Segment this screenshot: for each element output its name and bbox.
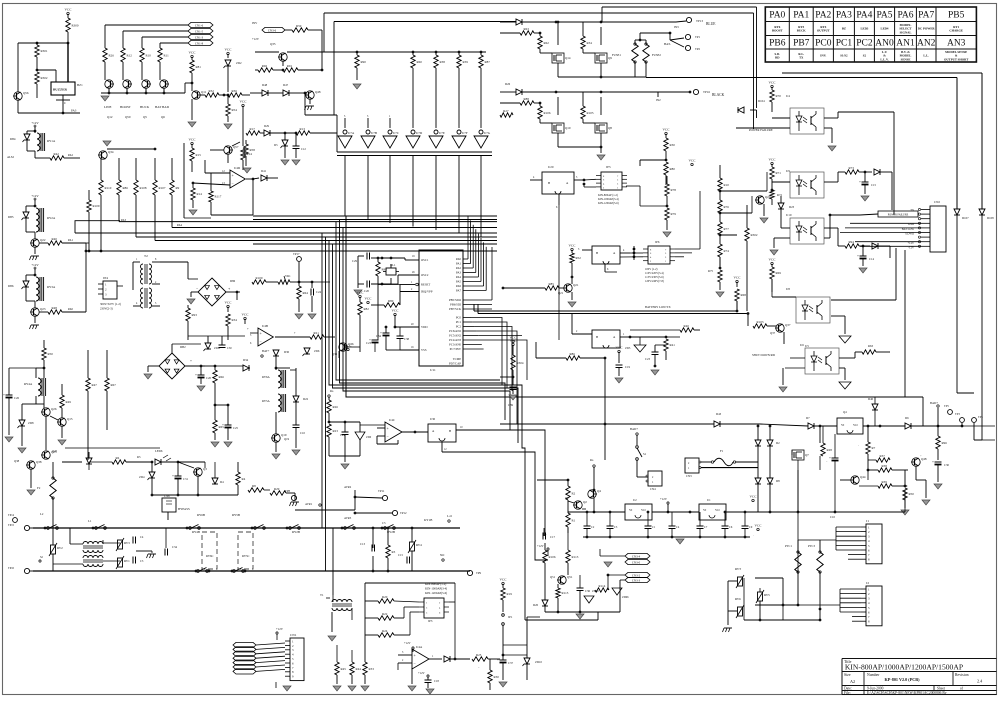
- svg-text:U7D: U7D: [416, 131, 423, 135]
- svg-text:R13: R13: [300, 127, 306, 131]
- svg-text:PC2: PC2: [856, 39, 873, 49]
- svg-text:Q10: Q10: [565, 126, 571, 130]
- svg-text:VCC: VCC: [225, 48, 233, 52]
- svg-text:D85: D85: [8, 215, 14, 219]
- svg-text:PC6/AN2: PC6/AN2: [449, 329, 461, 333]
- svg-text:B: B: [548, 181, 550, 185]
- svg-text:D104: D104: [758, 99, 765, 103]
- svg-text:OSC1: OSC1: [421, 258, 429, 262]
- svg-text:+: +: [247, 327, 249, 331]
- svg-text:R17: R17: [250, 127, 256, 131]
- svg-text:PC3/AN0: PC3/AN0: [449, 343, 461, 347]
- svg-text:AN3: AN3: [947, 39, 966, 49]
- svg-text:R304: R304: [517, 361, 524, 365]
- svg-text:LED6: LED6: [155, 449, 163, 453]
- svg-text:PA6: PA6: [897, 11, 913, 21]
- svg-text:Number: Number: [867, 673, 880, 677]
- svg-text:300V/347V (1-2): 300V/347V (1-2): [100, 302, 121, 306]
- svg-text:R302: R302: [751, 233, 758, 237]
- svg-text:PA2: PA2: [815, 11, 831, 21]
- svg-text:PA5: PA5: [876, 11, 892, 21]
- svg-text:R106: R106: [549, 555, 556, 559]
- svg-text:Q48: Q48: [921, 457, 927, 461]
- svg-text:Q19: Q19: [284, 437, 290, 441]
- svg-text:+: +: [829, 456, 831, 460]
- svg-text:C5: C5: [382, 521, 386, 525]
- svg-text:L.O: L.O: [447, 514, 453, 518]
- svg-text:R15: R15: [196, 153, 202, 157]
- svg-text:OUTPUT: OUTPUT: [817, 29, 831, 33]
- svg-text:RY5A: RY5A: [262, 399, 271, 403]
- svg-text:RY2A: RY2A: [47, 216, 56, 220]
- svg-text:FUSE2: FUSE2: [652, 53, 661, 57]
- svg-text:R42: R42: [54, 152, 60, 156]
- svg-text:+12V: +12V: [418, 671, 426, 675]
- svg-text:R66: R66: [219, 375, 225, 379]
- svg-text:PC1: PC1: [456, 320, 462, 324]
- svg-text:PB5/SDO: PB5/SDO: [449, 298, 462, 302]
- svg-text:R63: R63: [524, 27, 530, 31]
- svg-text:+: +: [932, 460, 934, 464]
- svg-text:R19: R19: [507, 592, 513, 596]
- svg-text:RV3: RV3: [124, 541, 130, 545]
- svg-text:PA2: PA2: [68, 153, 74, 157]
- svg-text:RY2B: RY2B: [292, 530, 300, 534]
- svg-text:U4D: U4D: [234, 166, 241, 170]
- svg-text:Q8: Q8: [608, 126, 612, 130]
- svg-text:RY4A: RY4A: [24, 382, 33, 386]
- svg-text:ZD6: ZD6: [314, 349, 320, 353]
- svg-text:C15: C15: [871, 183, 877, 187]
- svg-text:R30: R30: [670, 143, 676, 147]
- svg-text:R115: R115: [562, 591, 569, 595]
- svg-text:AN1: AN1: [896, 39, 915, 49]
- svg-text:U8: U8: [786, 287, 790, 291]
- svg-text:C44: C44: [340, 434, 345, 437]
- svg-text:R39: R39: [882, 480, 888, 484]
- svg-text:+12V: +12V: [537, 544, 545, 548]
- svg-text:R80: R80: [670, 167, 676, 171]
- svg-text:C15: C15: [398, 553, 404, 557]
- svg-text:+12V: +12V: [276, 627, 284, 631]
- svg-text:TP11: TP11: [378, 489, 385, 493]
- svg-text:BOOST: BOOST: [772, 29, 784, 33]
- svg-text:R114: R114: [599, 584, 606, 588]
- svg-text:CN3-6: CN3-6: [268, 28, 277, 32]
- svg-text:R103: R103: [757, 320, 764, 324]
- svg-text:R10: R10: [724, 183, 730, 187]
- svg-text:OUTPUT SHORT: OUTPUT SHORT: [944, 57, 969, 61]
- svg-text:ZD4: ZD4: [139, 475, 145, 479]
- svg-text:100V (1-2): 100V (1-2): [645, 268, 658, 271]
- svg-text:POWER FAILURE: POWER FAILURE: [749, 128, 773, 132]
- svg-text:R30: R30: [494, 675, 500, 679]
- svg-text:AVR1: AVR1: [305, 502, 313, 506]
- svg-text:PC2: PC2: [456, 325, 462, 329]
- svg-text:U7B: U7B: [371, 131, 377, 135]
- svg-text:R78: R78: [671, 188, 677, 192]
- svg-text:RY6C: RY6C: [206, 554, 214, 558]
- svg-text:Q36: Q36: [332, 352, 338, 356]
- svg-text:R90: R90: [361, 60, 367, 64]
- svg-text:PA4: PA4: [177, 223, 183, 227]
- svg-text:U7F: U7F: [462, 131, 468, 135]
- svg-text:D34: D34: [243, 358, 249, 362]
- svg-text:PTC1: PTC1: [785, 544, 793, 548]
- svg-text:VCC: VCC: [569, 244, 577, 248]
- svg-text:Q22: Q22: [40, 238, 46, 242]
- svg-text:BATTERY LOW/TX: BATTERY LOW/TX: [645, 305, 671, 309]
- svg-text:+: +: [3, 393, 5, 397]
- svg-text:R45: R45: [341, 667, 347, 671]
- svg-text:R1: R1: [572, 518, 576, 522]
- svg-text:Q6: Q6: [161, 115, 165, 119]
- svg-text:R50: R50: [48, 352, 54, 356]
- svg-text:D40: D40: [868, 397, 874, 401]
- svg-text:Q50: Q50: [125, 115, 131, 119]
- svg-text:115V/230V(5-6): 115V/230V(5-6): [645, 276, 664, 279]
- svg-text:R79: R79: [671, 212, 677, 216]
- svg-text:Q56: Q56: [23, 91, 29, 95]
- svg-text:R91: R91: [287, 64, 293, 68]
- svg-text:R33: R33: [369, 667, 375, 671]
- svg-text:R107: R107: [159, 186, 166, 190]
- svg-text:CN3: CN3: [686, 474, 692, 478]
- svg-text:VCC: VCC: [750, 495, 758, 499]
- svg-text:TP15: TP15: [8, 524, 15, 527]
- svg-text:R37: R37: [880, 454, 886, 458]
- svg-text:C23: C23: [645, 357, 651, 361]
- svg-text:D22: D22: [303, 397, 309, 401]
- svg-text:R93: R93: [192, 313, 198, 317]
- svg-text:VCC: VCC: [755, 524, 763, 528]
- svg-text:Q7: Q7: [805, 453, 809, 457]
- svg-text:R58: R58: [250, 148, 256, 152]
- svg-text:R47: R47: [92, 383, 98, 387]
- svg-text:B: B: [596, 251, 598, 255]
- svg-text:R85: R85: [549, 282, 555, 286]
- svg-text:R7: R7: [872, 446, 876, 450]
- svg-text:R73: R73: [849, 166, 855, 170]
- svg-text:PC7/INV: PC7/INV: [450, 347, 462, 351]
- svg-text:ALM: ALM: [7, 155, 14, 159]
- svg-text:E:\A2\SCH\SCH\KP-801\NEW\KP801: E:\A2\SCH\SCH\KP-801\NEW\KP801AC2000806 …: [867, 691, 947, 695]
- svg-text:R300: R300: [72, 23, 79, 27]
- svg-text:+: +: [190, 359, 192, 363]
- svg-text:TP12: TP12: [400, 511, 407, 515]
- svg-text:VCC: VCC: [392, 309, 400, 313]
- svg-text:VCC: VCC: [510, 339, 518, 343]
- svg-text:R108: R108: [140, 186, 147, 190]
- svg-text:KIN-800AP/1000AP/1200AP/1500AP: KIN-800AP/1000AP/1200AP/1500AP: [845, 663, 963, 672]
- svg-text:TX: TX: [799, 56, 804, 60]
- svg-text:Q38: Q38: [36, 460, 42, 464]
- svg-text:D107: D107: [962, 216, 969, 220]
- svg-text:IN3: IN3: [674, 25, 679, 29]
- svg-text:S1/S2: S1/S2: [840, 54, 848, 58]
- svg-text:KIN-800AP (1-2): KIN-800AP (1-2): [598, 194, 618, 197]
- svg-text:RV4: RV4: [416, 543, 422, 547]
- svg-text:+12V: +12V: [252, 37, 260, 41]
- svg-text:R6: R6: [116, 456, 120, 460]
- svg-text:SIGNAL: SIGNAL: [900, 30, 912, 34]
- svg-text:R63: R63: [868, 344, 874, 348]
- svg-text:+12V: +12V: [31, 263, 39, 267]
- svg-text:D41: D41: [261, 169, 267, 173]
- svg-text:PD7/CAP: PD7/CAP: [449, 362, 461, 366]
- svg-text:U7E: U7E: [439, 131, 445, 135]
- svg-text:INV: INV: [252, 21, 258, 25]
- svg-text:+12V: +12V: [660, 497, 668, 501]
- svg-text:R301: R301: [41, 49, 48, 53]
- svg-text:230V(2-3): 230V(2-3): [100, 307, 113, 311]
- svg-text:C25: C25: [233, 426, 239, 430]
- svg-text:R105: R105: [587, 111, 594, 115]
- svg-text:VI: VI: [703, 508, 706, 512]
- svg-text:C19: C19: [625, 365, 631, 369]
- svg-text:C38: C38: [404, 337, 410, 341]
- svg-text:RY1A: RY1A: [47, 139, 56, 143]
- svg-text:U4: U4: [786, 94, 790, 98]
- svg-text:R23: R23: [333, 429, 339, 433]
- svg-text:RY5C: RY5C: [242, 554, 250, 558]
- svg-text:VO: VO: [853, 423, 858, 427]
- svg-text:ZD10: ZD10: [535, 660, 542, 664]
- svg-text:D48: D48: [262, 83, 268, 87]
- svg-text:File:: File:: [844, 691, 851, 695]
- svg-text:VCC: VCC: [769, 81, 777, 85]
- svg-text:KIN-1000AP(3-4): KIN-1000AP(3-4): [425, 587, 447, 591]
- svg-text:C30: C30: [227, 347, 232, 350]
- svg-text:SENSE: SENSE: [901, 57, 911, 61]
- svg-text:BYPASS: BYPASS: [178, 507, 190, 511]
- svg-text:PA4: PA4: [456, 275, 462, 279]
- svg-text:Q4: Q4: [597, 489, 601, 493]
- svg-text:TP13: TP13: [696, 19, 703, 23]
- svg-text:R86: R86: [570, 352, 576, 356]
- svg-text:Revision: Revision: [955, 673, 969, 677]
- svg-text:L.L.V.: L.L.V.: [880, 57, 889, 61]
- svg-text:R24: R24: [382, 629, 388, 633]
- svg-text:R36: R36: [232, 89, 238, 93]
- svg-text:BLUE: BLUE: [706, 22, 716, 26]
- svg-text:R82: R82: [364, 307, 370, 311]
- svg-text:R77: R77: [724, 227, 730, 231]
- svg-text:PA4: PA4: [856, 11, 872, 21]
- svg-text:R3: R3: [392, 550, 396, 554]
- svg-text:RY4B: RY4B: [192, 530, 200, 534]
- svg-text:D84: D84: [10, 137, 16, 141]
- svg-text:Q37: Q37: [770, 331, 776, 335]
- svg-text:+12V: +12V: [31, 121, 39, 125]
- svg-text:Q15: Q15: [67, 417, 73, 421]
- svg-text:R109: R109: [93, 204, 100, 208]
- svg-text:U10: U10: [786, 213, 792, 217]
- svg-text:R74: R74: [724, 249, 730, 253]
- svg-text:IN2: IN2: [656, 98, 661, 102]
- svg-text:CN1-6: CN1-6: [195, 23, 204, 27]
- svg-text:TP1: TP1: [695, 35, 701, 39]
- svg-text:R38: R38: [882, 464, 888, 468]
- svg-text:U7G: U7G: [484, 131, 491, 135]
- svg-text:+: +: [222, 423, 224, 427]
- svg-text:C36: C36: [585, 589, 591, 593]
- svg-text:ZD0: ZD0: [366, 436, 372, 439]
- svg-text:-12V: -12V: [908, 246, 914, 249]
- svg-text:VR1: VR1: [285, 274, 291, 278]
- svg-text:PC0: PC0: [456, 316, 462, 320]
- svg-text:CN3-0: CN3-0: [632, 560, 641, 564]
- svg-text:VCC: VCC: [225, 301, 233, 305]
- svg-text:R76: R76: [724, 205, 730, 209]
- svg-text:D26: D26: [505, 82, 511, 86]
- svg-text:C29: C29: [352, 259, 358, 263]
- svg-text:R32: R32: [209, 89, 215, 93]
- svg-text:R25: R25: [476, 653, 482, 657]
- svg-text:L2: L2: [40, 512, 44, 516]
- svg-text:R26: R26: [333, 405, 339, 409]
- svg-text:R14: R14: [197, 192, 203, 196]
- svg-text:D108: D108: [987, 216, 994, 220]
- svg-text:R70: R70: [776, 94, 782, 98]
- svg-text:R28: R28: [827, 448, 833, 452]
- svg-text:C20: C20: [364, 289, 370, 293]
- svg-text:D47: D47: [283, 83, 289, 87]
- svg-text:VO: VO: [641, 508, 646, 512]
- svg-text:CN6: CN6: [164, 494, 170, 498]
- svg-text:TCMP: TCMP: [453, 357, 462, 361]
- svg-text:R68: R68: [741, 293, 747, 297]
- svg-text:R94: R94: [849, 240, 855, 244]
- svg-text:BAT-: BAT-: [664, 42, 671, 46]
- svg-text:BOOST: BOOST: [120, 105, 131, 109]
- svg-text:CN4: CN4: [650, 487, 656, 491]
- svg-text:R54: R54: [232, 108, 238, 112]
- svg-text:R96: R96: [942, 441, 948, 445]
- svg-text:U7A: U7A: [348, 131, 355, 135]
- svg-text:TP17: TP17: [293, 252, 300, 256]
- svg-text:BAD+: BAD+: [630, 427, 638, 431]
- svg-text:L.L.: L.L.: [923, 54, 929, 58]
- svg-text:Q23: Q23: [40, 307, 46, 311]
- svg-text:T2: T2: [144, 254, 148, 258]
- svg-text:120V/240V(7-8): 120V/240V(7-8): [645, 280, 664, 283]
- svg-text:KIN-1000AP(3-4): KIN-1000AP(3-4): [598, 198, 619, 201]
- svg-text:R62: R62: [544, 41, 550, 45]
- svg-text:R117: R117: [215, 195, 222, 199]
- svg-text:VCC: VCC: [242, 313, 250, 317]
- svg-text:S.DWD: S.DWD: [905, 233, 914, 236]
- svg-text:ZD96: ZD96: [622, 596, 629, 599]
- svg-text:C18: C18: [434, 679, 439, 683]
- svg-text:R4: R4: [242, 477, 246, 481]
- svg-text:R2: R2: [572, 491, 576, 495]
- svg-text:VI: VI: [841, 423, 844, 427]
- svg-text:D86: D86: [8, 284, 14, 288]
- svg-text:KP-801 V2.0 (PCB): KP-801 V2.0 (PCB): [885, 677, 921, 682]
- svg-text:R48: R48: [52, 306, 58, 310]
- svg-text:C26: C26: [14, 396, 20, 400]
- svg-text:VCC: VCC: [616, 346, 624, 350]
- svg-text:U2: U2: [633, 498, 637, 502]
- svg-text:D5: D5: [274, 143, 278, 147]
- svg-text:Q11: Q11: [201, 90, 207, 94]
- svg-text:VCC: VCC: [365, 297, 373, 301]
- svg-text:R110: R110: [105, 186, 112, 190]
- svg-text:Date:: Date:: [844, 687, 852, 691]
- svg-text:R50: R50: [909, 492, 915, 496]
- svg-text:R9: R9: [176, 186, 180, 190]
- svg-text:U6: U6: [800, 343, 804, 347]
- svg-text:Q12: Q12: [107, 115, 113, 119]
- svg-text:U1: U1: [707, 498, 711, 502]
- svg-text:VCC: VCC: [189, 51, 197, 55]
- svg-text:JP4: JP4: [103, 276, 108, 280]
- svg-text:TP9: TP9: [476, 571, 482, 575]
- svg-text:C10: C10: [300, 431, 306, 435]
- svg-text:R41: R41: [670, 343, 676, 347]
- svg-text:R34: R34: [232, 318, 238, 322]
- svg-text:RY6B: RY6B: [197, 513, 205, 517]
- svg-text:JP6: JP6: [655, 240, 660, 244]
- svg-text:R10: R10: [146, 53, 152, 57]
- svg-text:U4A: U4A: [416, 645, 423, 649]
- svg-text:9-Jun-2000: 9-Jun-2000: [867, 687, 884, 691]
- svg-text:C23: C23: [366, 341, 372, 345]
- svg-text:BUCK: BUCK: [797, 29, 807, 33]
- svg-text:B: B: [596, 335, 598, 339]
- svg-text:VCC: VCC: [769, 258, 777, 262]
- svg-text:CN3-2: CN3-2: [632, 573, 641, 577]
- svg-text:VO: VO: [715, 508, 720, 512]
- svg-text:C3: C3: [140, 559, 144, 563]
- svg-text:PB7/SCK: PB7/SCK: [449, 307, 462, 311]
- svg-text:PC1: PC1: [836, 39, 853, 49]
- svg-text:PA3: PA3: [836, 11, 852, 21]
- svg-text:D86: D86: [230, 279, 236, 283]
- svg-text:RY3A: RY3A: [47, 285, 56, 289]
- svg-text:RV6: RV6: [735, 597, 741, 601]
- svg-text:C24: C24: [316, 290, 322, 294]
- svg-text:R20: R20: [382, 595, 388, 599]
- svg-text:PB5: PB5: [948, 11, 965, 21]
- svg-text:R69: R69: [776, 271, 782, 275]
- svg-text:Q38: Q38: [14, 459, 20, 463]
- svg-text:R12: R12: [127, 53, 133, 57]
- svg-text:Q48: Q48: [315, 90, 321, 94]
- svg-text:R21: R21: [314, 331, 320, 335]
- svg-text:R302: R302: [41, 76, 48, 80]
- svg-text:D43: D43: [716, 412, 722, 416]
- svg-text:BZ: BZ: [842, 27, 846, 31]
- svg-text:BAT BAD: BAT BAD: [155, 105, 170, 109]
- svg-text:JP3: JP3: [428, 619, 433, 623]
- svg-text:+: +: [172, 474, 174, 478]
- svg-text:U20: U20: [548, 165, 554, 169]
- svg-text:CN1-5: CN1-5: [195, 29, 204, 33]
- svg-text:Q51: Q51: [550, 575, 556, 579]
- svg-text:Q21: Q21: [558, 291, 564, 295]
- svg-text:TP14: TP14: [8, 514, 15, 517]
- svg-text:R64: R64: [303, 291, 309, 295]
- svg-text:BZ1: BZ1: [77, 83, 83, 87]
- svg-text:U11: U11: [430, 368, 436, 372]
- svg-text:PA7: PA7: [456, 289, 462, 293]
- svg-text:RD: RD: [775, 56, 780, 60]
- svg-text:KIN-1200AP(5-6): KIN-1200AP(5-6): [425, 591, 447, 595]
- svg-text:R40: R40: [684, 324, 690, 328]
- svg-text:R27: R27: [503, 109, 509, 113]
